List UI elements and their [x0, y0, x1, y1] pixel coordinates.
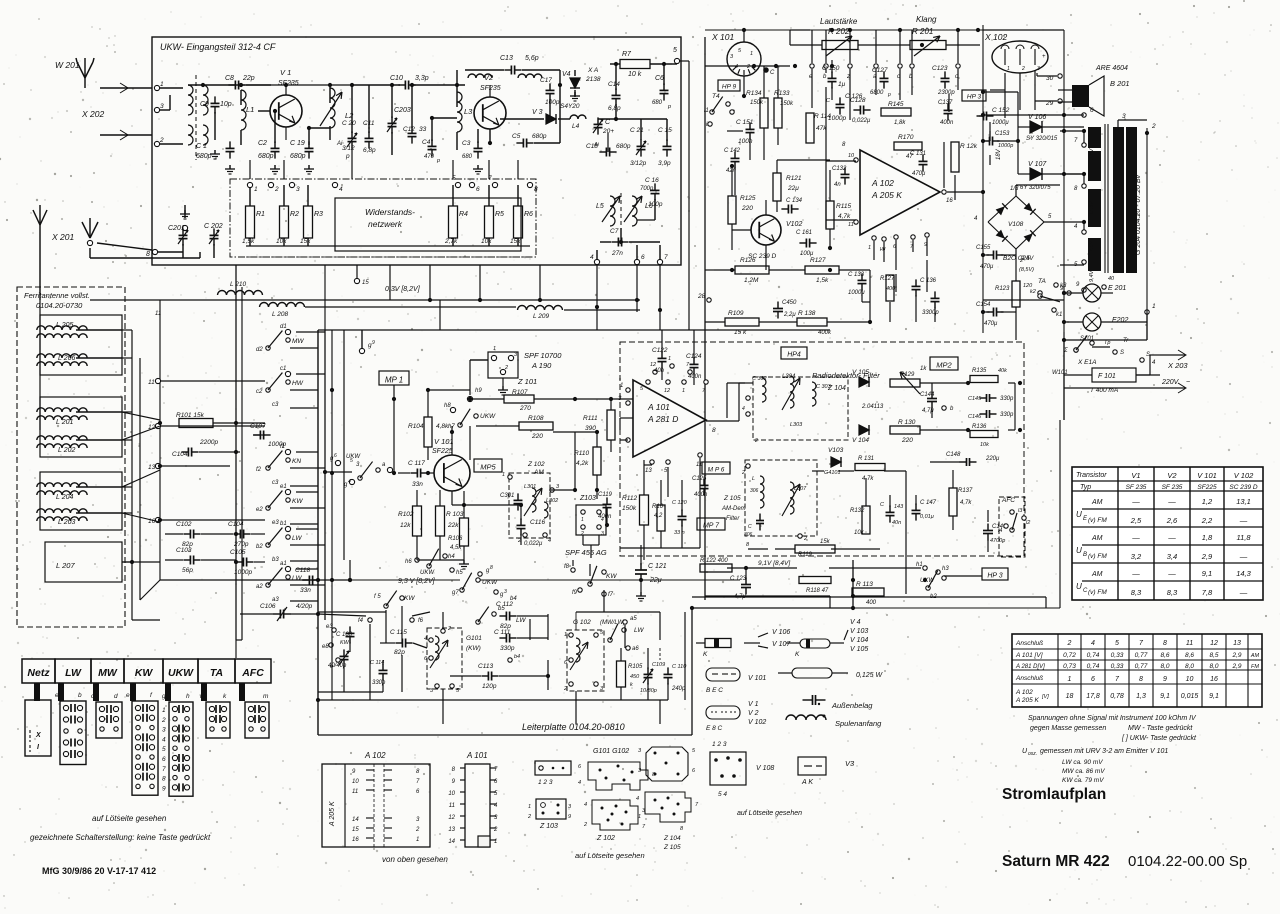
svg-text:1: 1 — [1152, 303, 1156, 310]
svg-text:9: 9 — [372, 340, 375, 346]
svg-text:KW: KW — [135, 667, 154, 679]
svg-text:240p: 240p — [671, 686, 686, 692]
svg-text:h4: h4 — [448, 554, 455, 560]
svg-text:E 8 C: E 8 C — [706, 725, 723, 732]
svg-text:1,8k: 1,8k — [894, 120, 906, 126]
svg-text:(KW): (KW) — [466, 645, 481, 652]
svg-text:Typ: Typ — [1080, 484, 1091, 491]
svg-text:R3: R3 — [314, 211, 323, 218]
svg-text:C 147: C 147 — [920, 500, 937, 506]
svg-text:4,7k: 4,7k — [862, 476, 874, 482]
svg-text:C8: C8 — [225, 75, 234, 82]
svg-text:R137: R137 — [958, 488, 973, 494]
svg-text:C144: C144 — [920, 392, 935, 398]
svg-text:R115: R115 — [836, 203, 851, 210]
svg-text:220: 220 — [531, 433, 543, 440]
svg-text:X 203: X 203 — [1167, 361, 1188, 370]
svg-text:—: — — [1239, 516, 1248, 525]
svg-text:R 103: R 103 — [446, 511, 464, 518]
svg-text:MfG 30/9/86 20 V-17-17 412: MfG 30/9/86 20 V-17-17 412 — [42, 866, 156, 876]
svg-text:470μ: 470μ — [980, 264, 994, 270]
svg-text:V 2: V 2 — [748, 710, 759, 717]
svg-text:f9: f9 — [572, 590, 578, 596]
svg-text:C 20: C 20 — [342, 120, 356, 127]
svg-text:4: 4 — [1091, 640, 1095, 647]
svg-text:b5: b5 — [498, 606, 505, 612]
svg-text:270: 270 — [519, 405, 531, 412]
svg-text:1: 1 — [493, 346, 496, 352]
svg-text:R6: R6 — [524, 211, 533, 218]
svg-text:gemessen mit URV 3-2 am E: gemessen mit URV 3-2 am Emitter V 101 — [1040, 748, 1168, 755]
svg-text:V108: V108 — [1008, 221, 1024, 228]
svg-text:V 102: V 102 — [748, 719, 766, 726]
svg-text:33n: 33n — [412, 481, 423, 488]
svg-text:11,8V: 11,8V — [1089, 200, 1095, 215]
svg-text:27n: 27n — [611, 250, 623, 257]
svg-text:0,33: 0,33 — [1111, 652, 1124, 659]
svg-text:40: 40 — [1108, 276, 1115, 282]
svg-text:f1: f1 — [280, 444, 285, 450]
svg-text:2: 2 — [754, 438, 758, 444]
svg-text:6Y 320/075: 6Y 320/075 — [1020, 185, 1051, 191]
svg-text:18V: 18V — [996, 148, 1002, 160]
svg-text:V 102: V 102 — [1234, 471, 1254, 480]
svg-text:A 281 D[V]: A 281 D[V] — [1015, 664, 1045, 670]
svg-text:R121: R121 — [786, 175, 802, 182]
svg-text:2: 2 — [415, 827, 420, 833]
svg-text:Stromlaufplan: Stromlaufplan — [1002, 786, 1106, 803]
svg-text:C18: C18 — [586, 143, 598, 150]
svg-text:X A: X A — [587, 67, 598, 74]
svg-text:C 15: C 15 — [658, 127, 672, 134]
svg-text:16: 16 — [946, 198, 953, 204]
svg-text:2,9: 2,9 — [1231, 663, 1241, 670]
svg-text:40k: 40k — [998, 368, 1007, 374]
svg-text:c3: c3 — [272, 480, 279, 486]
svg-text:680p: 680p — [196, 153, 212, 160]
svg-text:C113: C113 — [478, 663, 493, 670]
svg-text:2300p: 2300p — [937, 90, 955, 96]
svg-text:L5: L5 — [596, 203, 604, 210]
svg-text:V 104: V 104 — [852, 437, 869, 444]
svg-text:1000μ: 1000μ — [992, 120, 1009, 126]
svg-text:R134: R134 — [746, 90, 762, 97]
svg-text:Saturn MR 422: Saturn MR 422 — [1002, 853, 1110, 870]
svg-text:2: 2 — [1067, 640, 1072, 647]
svg-text:SF235: SF235 — [278, 80, 299, 87]
svg-text:5: 5 — [673, 47, 677, 54]
svg-text:R136: R136 — [972, 424, 987, 430]
svg-text:f2: f2 — [256, 467, 262, 473]
svg-text:A 205 K: A 205 K — [1015, 697, 1040, 704]
svg-text:Transistor: Transistor — [1076, 472, 1107, 479]
svg-text:FM: FM — [1251, 664, 1259, 670]
svg-text:5 4: 5 4 — [718, 791, 727, 798]
svg-text:C 117: C 117 — [408, 460, 425, 467]
svg-text:14: 14 — [352, 817, 359, 823]
svg-text:Ferritantenne vollst.: Ferritantenne vollst. — [24, 291, 90, 300]
svg-text:e8: e8 — [322, 644, 329, 650]
svg-text:C 133: C 133 — [848, 272, 865, 278]
svg-text:E202: E202 — [1112, 317, 1128, 324]
svg-text:Klang: Klang — [916, 15, 937, 24]
svg-text:~: ~ — [1186, 379, 1190, 386]
svg-text:28: 28 — [697, 293, 706, 300]
svg-text:L 205: L 205 — [56, 322, 73, 329]
svg-text:—: — — [1131, 533, 1140, 542]
svg-text:L2: L2 — [345, 111, 354, 120]
svg-text:L 209: L 209 — [533, 313, 550, 320]
svg-text:82p: 82p — [394, 649, 405, 656]
svg-text:h: h — [186, 693, 190, 700]
svg-text:12: 12 — [1210, 640, 1218, 647]
svg-text:V 1: V 1 — [748, 701, 759, 708]
svg-text:Filter: Filter — [726, 516, 740, 522]
svg-text:i1: i1 — [704, 108, 709, 114]
svg-text:400: 400 — [866, 600, 877, 606]
svg-text:1: 1 — [620, 383, 623, 389]
svg-text:2138: 2138 — [585, 76, 601, 83]
svg-text:Netz: Netz — [27, 667, 50, 679]
svg-text:C127: C127 — [872, 67, 888, 74]
svg-text:K: K — [795, 651, 800, 658]
svg-text:C450: C450 — [782, 300, 797, 306]
svg-text:Z 102: Z 102 — [596, 835, 615, 842]
svg-text:100n: 100n — [738, 138, 753, 145]
svg-text:d1: d1 — [280, 324, 287, 330]
svg-text:MW: MW — [292, 338, 304, 345]
svg-text:1: 1 — [638, 814, 641, 820]
svg-text:3/12: 3/12 — [342, 145, 355, 152]
svg-text:1000p: 1000p — [998, 143, 1013, 149]
svg-text:AM: AM — [1091, 571, 1103, 578]
svg-text:2: 2 — [803, 536, 807, 542]
svg-text:KW: KW — [404, 595, 415, 602]
svg-text:3: 3 — [1037, 66, 1040, 72]
svg-text:UKW: UKW — [920, 578, 935, 584]
svg-text:9: 9 — [162, 785, 166, 792]
svg-text:470: 470 — [424, 154, 435, 160]
svg-text:12: 12 — [664, 388, 670, 394]
svg-text:0,022μ: 0,022μ — [524, 541, 543, 547]
svg-text:C7: C7 — [610, 228, 619, 235]
svg-text:1/3: 1/3 — [1010, 186, 1019, 192]
svg-text:680p: 680p — [258, 153, 274, 160]
svg-text:13: 13 — [448, 827, 455, 833]
svg-text:1: 1 — [416, 837, 419, 843]
svg-text:C 202: C 202 — [204, 223, 223, 230]
svg-text:V3: V3 — [845, 759, 855, 768]
svg-text:V 107: V 107 — [772, 641, 791, 648]
svg-text:W101: W101 — [1052, 370, 1068, 376]
svg-text:C 111: C 111 — [494, 629, 511, 636]
svg-text:4: 4 — [590, 254, 594, 261]
svg-text:0,022μ: 0,022μ — [852, 118, 871, 124]
svg-text:11: 11 — [155, 311, 161, 317]
svg-text:e1: e1 — [280, 484, 287, 490]
svg-text:b4: b4 — [510, 596, 517, 602]
svg-text:1,2: 1,2 — [1202, 497, 1213, 506]
svg-text:HP 3: HP 3 — [987, 573, 1002, 580]
svg-text:15 k: 15 k — [734, 329, 747, 336]
svg-text:10: 10 — [848, 153, 855, 159]
svg-text:2,9: 2,9 — [1231, 652, 1241, 659]
svg-text:L 203: L 203 — [58, 519, 75, 526]
svg-text:m: m — [263, 693, 269, 700]
svg-text:LW ca. 90 mV: LW ca. 90 mV — [1062, 759, 1103, 766]
svg-text:7: 7 — [664, 254, 668, 261]
svg-text:11: 11 — [352, 789, 358, 795]
svg-text:680p: 680p — [532, 133, 547, 140]
svg-text:220: 220 — [741, 205, 753, 212]
svg-text:680p: 680p — [616, 143, 631, 150]
svg-text:15: 15 — [352, 827, 359, 833]
svg-text:AM: AM — [1091, 535, 1103, 542]
svg-text:10k: 10k — [854, 530, 865, 536]
svg-text:3: 3 — [601, 531, 604, 537]
svg-text:X 201: X 201 — [51, 232, 74, 242]
svg-text:C118: C118 — [295, 567, 310, 574]
svg-text:2,7k: 2,7k — [444, 238, 458, 245]
svg-text:6: 6 — [162, 756, 166, 763]
svg-text:1: 1 — [160, 81, 164, 88]
svg-text:AM: AM — [533, 469, 544, 476]
svg-text:C146: C146 — [968, 414, 982, 420]
svg-text:10: 10 — [352, 779, 359, 785]
svg-text:S: S — [1120, 350, 1124, 356]
svg-text:C13: C13 — [500, 55, 513, 62]
svg-text:9,4V: 9,4V — [1021, 256, 1034, 262]
svg-text:C154: C154 — [976, 302, 991, 308]
svg-text:(v) FM: (v) FM — [1088, 553, 1107, 560]
svg-text:UKW: UKW — [168, 667, 194, 679]
svg-text:8: 8 — [162, 776, 166, 783]
svg-text:4: 4 — [578, 780, 581, 786]
svg-text:3300p: 3300p — [922, 310, 939, 316]
svg-text:R102: R102 — [398, 511, 414, 518]
svg-text:12k: 12k — [400, 522, 411, 529]
svg-text:UKW: UKW — [480, 413, 496, 420]
svg-text:2: 2 — [274, 186, 279, 193]
svg-text:470μ: 470μ — [912, 171, 926, 177]
svg-text:8: 8 — [490, 565, 493, 571]
svg-text:C122: C122 — [652, 347, 668, 354]
svg-text:2: 2 — [504, 365, 508, 371]
svg-text:3: 3 — [1122, 113, 1126, 120]
svg-text:C 134: C 134 — [786, 198, 803, 204]
svg-text:f6: f6 — [418, 618, 424, 624]
svg-text:C 120: C 120 — [672, 500, 688, 506]
svg-text:MW - Taste gedrückt: MW - Taste gedrückt — [1128, 725, 1193, 732]
svg-text:0104.22-00.00 Sp: 0104.22-00.00 Sp — [1128, 853, 1247, 870]
svg-text:15k: 15k — [510, 238, 521, 245]
svg-text:8: 8 — [712, 427, 716, 434]
svg-text:(8,5V): (8,5V) — [1019, 267, 1034, 273]
svg-text:R7: R7 — [622, 51, 632, 58]
svg-text:e: e — [126, 692, 130, 699]
svg-text:—: — — [1239, 552, 1248, 561]
svg-text:15k: 15k — [820, 539, 831, 545]
svg-text:MW: MW — [98, 667, 118, 679]
svg-text:C17: C17 — [540, 77, 552, 84]
svg-text:1,3: 1,3 — [1136, 693, 1146, 700]
svg-text:R118 47: R118 47 — [806, 588, 829, 594]
svg-text:MP5: MP5 — [480, 463, 496, 472]
svg-text:0,78: 0,78 — [1110, 693, 1124, 700]
svg-text:V 103: V 103 — [850, 628, 868, 635]
svg-text:p: p — [887, 92, 891, 98]
svg-text:p: p — [345, 153, 350, 160]
svg-text:G101: G101 — [466, 635, 482, 642]
svg-text:f 5: f 5 — [374, 594, 381, 600]
svg-text:Z 101: Z 101 — [517, 377, 537, 386]
svg-text:R107: R107 — [512, 389, 528, 396]
svg-text:1000p: 1000p — [234, 569, 252, 576]
svg-text:L 204: L 204 — [56, 494, 73, 501]
svg-text:h6: h6 — [405, 559, 412, 565]
svg-text:[V]: [V] — [1041, 694, 1049, 700]
svg-text:R1: R1 — [256, 211, 265, 218]
svg-text:3,3p: 3,3p — [415, 75, 429, 82]
svg-text:15: 15 — [362, 280, 369, 286]
svg-text:C137: C137 — [938, 100, 953, 106]
svg-text:d2: d2 — [256, 347, 263, 353]
svg-text:6: 6 — [1091, 676, 1095, 683]
svg-text:Außenbelag: Außenbelag — [831, 701, 873, 710]
svg-text:AFC: AFC — [241, 667, 264, 679]
svg-text:A 190: A 190 — [531, 361, 552, 370]
svg-text:0,125 W: 0,125 W — [856, 672, 883, 679]
svg-text:C106: C106 — [260, 603, 276, 610]
svg-text:Radiodetektor- Filter: Radiodetektor- Filter — [812, 371, 880, 380]
svg-text:G 204 0104.20 - 07.20 Bv: G 204 0104.20 - 07.20 Bv — [1135, 174, 1142, 255]
svg-text:Z 102: Z 102 — [527, 461, 545, 468]
svg-text:Anschluß: Anschluß — [1015, 640, 1043, 647]
svg-text:0,77: 0,77 — [1135, 652, 1148, 659]
svg-text:2,2μ: 2,2μ — [783, 312, 796, 318]
svg-text:gezeichnete Schalterstellung:: gezeichnete Schalterstellung: keine Tast… — [30, 833, 211, 842]
svg-text:22p: 22p — [242, 75, 255, 82]
svg-text:8,6: 8,6 — [1160, 652, 1169, 659]
svg-text:220μ: 220μ — [985, 456, 1000, 462]
svg-text:C105: C105 — [230, 549, 246, 556]
svg-text:V 101: V 101 — [434, 437, 454, 446]
svg-text:X 101: X 101 — [711, 32, 734, 42]
svg-text:SF225: SF225 — [432, 448, 453, 455]
svg-text:C4: C4 — [422, 139, 431, 146]
svg-text:R106: R106 — [448, 536, 463, 542]
svg-text:l2: l2 — [1026, 520, 1030, 526]
svg-text:SF 235: SF 235 — [1162, 484, 1183, 491]
svg-text:16: 16 — [352, 837, 359, 843]
svg-text:L3: L3 — [464, 107, 473, 116]
svg-text:1 2 3: 1 2 3 — [712, 741, 727, 748]
svg-text:1 2 3: 1 2 3 — [538, 779, 553, 786]
svg-text:Z103: Z103 — [579, 495, 596, 502]
svg-text:V 3: V 3 — [532, 109, 543, 116]
svg-text:+: + — [1042, 54, 1046, 60]
svg-text:KW ca. 79 mV: KW ca. 79 mV — [1062, 777, 1104, 784]
svg-text:AM-Dem: AM-Dem — [721, 506, 746, 512]
svg-text:2,9: 2,9 — [1201, 552, 1213, 561]
svg-text:A 102: A 102 — [1015, 689, 1033, 696]
svg-text:TA: TA — [210, 667, 223, 679]
svg-text:4: 4 — [742, 406, 745, 412]
svg-text:1,8: 1,8 — [1202, 533, 1213, 542]
svg-text:R16: R16 — [652, 504, 664, 510]
svg-text:LW: LW — [292, 535, 302, 542]
svg-text:(MW/LW): (MW/LW) — [600, 620, 625, 626]
svg-text:R119: R119 — [798, 552, 813, 558]
svg-text:(v) FM: (v) FM — [1088, 589, 1107, 596]
svg-text:150k: 150k — [750, 100, 764, 106]
svg-text:p: p — [667, 104, 671, 110]
svg-text:4: 4 — [162, 736, 166, 743]
svg-text:L301: L301 — [524, 484, 536, 490]
svg-text:C148: C148 — [946, 452, 961, 458]
svg-text:9,1: 9,1 — [1209, 693, 1219, 700]
svg-text:10: 10 — [1186, 676, 1194, 683]
svg-text:C132: C132 — [832, 166, 847, 172]
svg-text:L4: L4 — [572, 123, 580, 130]
svg-text:UKW- Eingangsteil 312-4 CF: UKW- Eingangsteil 312-4 CF — [160, 42, 276, 52]
svg-text:—: — — [1167, 569, 1176, 578]
svg-text:2: 2 — [527, 814, 531, 820]
svg-text:c2: c2 — [256, 389, 263, 395]
svg-text:—: — — [1167, 497, 1176, 506]
svg-text:C 108: C 108 — [336, 632, 353, 638]
svg-text:C109: C109 — [652, 662, 665, 668]
svg-text:AM: AM — [1091, 499, 1103, 506]
svg-text:L 210: L 210 — [230, 281, 247, 288]
svg-text:1: 1 — [668, 356, 671, 362]
svg-text:L 202: L 202 — [58, 447, 75, 454]
svg-text:1: 1 — [564, 632, 567, 638]
svg-text:Anschluß: Anschluß — [1015, 675, 1043, 682]
svg-text:1: 1 — [868, 245, 871, 251]
svg-text:R135: R135 — [972, 368, 987, 374]
svg-text:KW: KW — [606, 573, 617, 580]
svg-text:2: 2 — [746, 64, 750, 70]
svg-text:8,0: 8,0 — [1209, 663, 1218, 670]
svg-text:C 121: C 121 — [648, 563, 667, 570]
svg-text:6,8p: 6,8p — [608, 105, 621, 112]
svg-text:3: 3 — [160, 103, 164, 110]
svg-text:10k: 10k — [980, 442, 989, 448]
svg-text:V1: V1 — [1131, 471, 1140, 480]
svg-text:680p: 680p — [290, 153, 306, 160]
svg-text:3/12p: 3/12p — [630, 160, 647, 167]
svg-text:C107: C107 — [250, 423, 266, 430]
svg-text:400n: 400n — [694, 492, 708, 498]
svg-text:R 113: R 113 — [856, 581, 873, 588]
svg-text:L: L — [752, 476, 755, 482]
svg-text:R 138: R 138 — [798, 310, 816, 317]
svg-text:HP 9: HP 9 — [722, 84, 737, 91]
svg-text:1: 1 — [254, 186, 258, 193]
svg-text:R110: R110 — [574, 450, 589, 457]
svg-text:ARE 4604: ARE 4604 — [1095, 65, 1128, 72]
svg-text:h9: h9 — [475, 388, 482, 394]
svg-text:auf Lötseite gesehen: auf Lötseite gesehen — [737, 810, 802, 817]
svg-text:HP4: HP4 — [787, 352, 801, 359]
svg-text:9,1V [8,4V]: 9,1V [8,4V] — [758, 560, 790, 567]
svg-text:0104.20-0730: 0104.20-0730 — [36, 301, 83, 310]
svg-text:9,4V: 9,4V — [1089, 269, 1095, 282]
svg-text:2,5: 2,5 — [1130, 516, 1142, 525]
svg-text:a1: a1 — [280, 561, 287, 567]
svg-text:R123: R123 — [995, 286, 1010, 292]
